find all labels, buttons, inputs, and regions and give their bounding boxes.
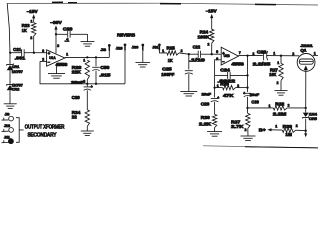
pin 8 of U1A	[57, 44, 59, 48]
svg-text:SECONDARY: SECONDARY	[28, 133, 58, 139]
capacitor C25 100PF	[161, 66, 193, 77]
svg-text:2: 2	[30, 36, 32, 40]
svg-text:C50: C50	[100, 65, 110, 70]
wire R36 to ground	[214, 128, 216, 132]
jack J31	[152, 43, 160, 50]
label OUTPUT XFORMER SECONDARY	[25, 124, 65, 138]
wire R27 to ground	[280, 81, 282, 91]
svg-text:1: 1	[162, 49, 164, 53]
pin 1 of R23	[31, 19, 33, 23]
svg-text:1M: 1M	[285, 132, 292, 137]
node H junction R25 / C25 / C22	[188, 53, 190, 55]
svg-text:2: 2	[296, 124, 298, 128]
wire C24 left	[215, 74, 228, 76]
svg-text:2: 2	[253, 52, 255, 56]
node Q junction CR5 / R30	[305, 130, 307, 132]
svg-text:47K: 47K	[223, 93, 235, 98]
svg-text:10K: 10K	[269, 72, 277, 77]
resistor R27 10K	[269, 56, 283, 81]
svg-text:−: −	[48, 60, 51, 65]
pin 6 of U1B	[216, 57, 218, 61]
wire R30 to node Q	[296, 129, 306, 132]
wire C50 top	[95, 57, 97, 66]
node O junction C30 / R32 / R37	[246, 107, 248, 109]
svg-text:2: 2	[208, 42, 210, 46]
wire node P to CR5	[305, 108, 307, 113]
diode CR1 1N757 zener	[7, 63, 24, 74]
jack J30	[132, 44, 144, 51]
capacitor C24 .0022	[218, 68, 236, 84]
svg-text:2.7K: 2.7K	[231, 124, 245, 129]
wire CR5 to node Q	[305, 119, 307, 131]
wire Q1 drain right	[313, 55, 318, 57]
jack J10	[2, 124, 14, 132]
svg-text:7: 7	[239, 51, 241, 55]
capacitor C21 .001	[13, 47, 26, 61]
svg-text:1K: 1K	[22, 28, 28, 33]
wire minus rail C24 to R29	[214, 75, 216, 97]
ground below CR2	[4, 104, 17, 109]
svg-text:+: +	[243, 91, 245, 95]
node G junction feedback / C50	[95, 83, 97, 85]
node L junction output rail / C24	[246, 74, 248, 76]
resistor R25 1K	[167, 46, 179, 63]
transistor Q1 J231	[297, 43, 315, 72]
svg-text:1: 1	[273, 52, 275, 56]
wire C30 to node O	[247, 97, 249, 114]
node I junction C22 / R24 / U1B	[211, 53, 213, 55]
pin 1 of R32	[269, 104, 271, 108]
pin 2 of R24	[208, 42, 210, 46]
svg-text:U1A: U1A	[49, 56, 56, 60]
diode CR5 1N4	[303, 111, 318, 121]
svg-text:2: 2	[288, 104, 290, 108]
power -15V supply right	[206, 9, 217, 30]
pin 2 of R23	[30, 36, 32, 40]
svg-text:1: 1	[314, 52, 316, 56]
wire U1A output	[65, 56, 110, 58]
resistor R29 47K	[220, 81, 235, 98]
node J junction minus rail / R29	[213, 86, 215, 88]
pin 1 of C23	[273, 52, 275, 56]
wire U1B output	[238, 55, 262, 57]
pin 1 of R30	[275, 124, 277, 128]
wire rail down to CR1	[9, 53, 11, 64]
svg-text:C24: C24	[220, 68, 230, 73]
svg-text:1: 1	[269, 104, 271, 108]
wire input rail from output transformer	[7, 3, 10, 52]
ground below U1A	[48, 63, 65, 78]
svg-text:R36: R36	[201, 115, 211, 120]
capacitor C23 2.2/35	[253, 50, 271, 67]
node F junction feedback / R26	[86, 83, 88, 85]
pin 2 of R26	[83, 80, 85, 84]
ground for R27	[275, 91, 288, 96]
svg-text:−15V: −15V	[27, 9, 38, 14]
resistor R30 1M	[282, 124, 295, 137]
svg-text:−30V: −30V	[50, 20, 62, 25]
svg-text:1: 1	[83, 59, 85, 63]
wire R26 bottom	[86, 80, 88, 84]
ground for C20	[81, 42, 95, 47]
pin 2 of Q1	[292, 52, 294, 56]
label REVERB	[117, 32, 136, 37]
svg-text:.1: .1	[65, 37, 70, 42]
svg-text:R29: R29	[220, 81, 229, 86]
wire J31 to R25	[159, 51, 167, 53]
wire J29 riser to feedback	[124, 50, 126, 83]
resistor R24 100K	[198, 29, 214, 43]
svg-text:C26: C26	[72, 95, 81, 100]
ground for R34	[81, 131, 94, 136]
svg-text:J29: J29	[116, 47, 123, 51]
jack J29	[116, 43, 127, 50]
svg-text:2: 2	[181, 49, 183, 53]
svg-text:REVERB: REVERB	[117, 32, 136, 37]
bracket output transformer secondary	[16, 118, 24, 143]
capacitor C29 20uF	[201, 92, 220, 107]
svg-text:.015: .015	[99, 73, 111, 78]
wire R24 to node I	[211, 43, 213, 54]
diode CR2 1N757 zener	[7, 83, 24, 92]
ground for R37	[241, 136, 256, 141]
wire R23 to input node	[33, 36, 35, 53]
pin 5 of U1B	[216, 50, 218, 54]
svg-text:C22: C22	[193, 44, 201, 49]
wire CR2 to ground	[9, 90, 11, 104]
svg-text:2: 2	[292, 52, 294, 56]
svg-text:Q1: Q1	[300, 47, 307, 52]
wire minus input of U1A	[40, 60, 47, 62]
wire feedback right rail	[247, 56, 249, 92]
pin 1 of R27	[277, 61, 279, 65]
pin 1 of R25	[162, 49, 164, 53]
node N junction output / R27	[280, 55, 282, 57]
node B junction R23 / C21 / op-amp input	[33, 52, 35, 54]
svg-text:20uF: 20uF	[71, 79, 85, 84]
svg-text:J8: J8	[101, 48, 106, 52]
wire stub below node Q	[304, 131, 307, 138]
wire C24 right	[230, 74, 247, 76]
pin 2 of R32	[288, 104, 290, 108]
wire R32 to right rail	[287, 107, 306, 109]
svg-text:J9: J9	[5, 113, 10, 117]
svg-text:R30: R30	[283, 124, 293, 129]
pin 2 of R37	[245, 128, 247, 132]
wire C26 to R34	[86, 90, 88, 110]
wire B+ to R30	[272, 129, 283, 131]
pin 3 of U1A	[42, 49, 44, 53]
op-amp U1B 4558	[221, 47, 244, 66]
node K junction output rail / R29	[246, 86, 248, 88]
pin 2 of R29	[237, 84, 239, 88]
wire node H to C22	[189, 53, 199, 55]
svg-text:22K: 22K	[72, 70, 82, 75]
svg-text:.1/10: .1/10	[189, 58, 205, 63]
svg-text:J30: J30	[132, 46, 139, 50]
wire Q1 source down	[305, 71, 307, 108]
wire node I to U1B + input	[212, 53, 222, 55]
svg-text:CR2: CR2	[12, 87, 20, 92]
node C junction -30V / C20	[55, 33, 57, 35]
svg-text:22: 22	[72, 115, 78, 120]
svg-text:R25: R25	[167, 46, 176, 51]
svg-text:2: 2	[277, 81, 279, 85]
svg-text:1K: 1K	[168, 58, 174, 63]
svg-text:C21: C21	[13, 47, 22, 52]
svg-text:+: +	[91, 85, 93, 89]
pin 2 of C23	[253, 52, 255, 56]
resistor R36 2.2K	[199, 114, 217, 127]
wire feedback drop U1A	[40, 61, 87, 83]
svg-text:1: 1	[277, 61, 279, 65]
svg-text:C30: C30	[251, 99, 259, 104]
wire U1B minus input	[215, 60, 222, 76]
ground for J30	[135, 62, 150, 67]
svg-text:2: 2	[245, 128, 247, 132]
wire node B to op-amp U1A + input	[34, 52, 47, 54]
op-amp U1A 4558	[47, 50, 69, 67]
pin 2 of R30	[296, 124, 298, 128]
capacitor C22 .1/10	[189, 44, 205, 62]
wire riser to J8	[108, 47, 110, 58]
wire C25 drop	[188, 54, 190, 69]
node D junction output / R26	[86, 56, 88, 58]
wire C22 to node I	[201, 53, 212, 55]
wire C23 to Q1 gate	[267, 55, 299, 57]
wire J30 to ground	[142, 51, 144, 63]
capacitor C30 20uF	[243, 91, 260, 104]
wire R34 to ground	[86, 126, 88, 131]
pin 2 of R27	[277, 81, 279, 85]
wire -30V node to C20	[56, 33, 67, 35]
svg-text:100K: 100K	[198, 34, 211, 39]
svg-text:C25: C25	[162, 66, 172, 71]
svg-text:2.2M: 2.2M	[273, 111, 287, 116]
node B+ terminal	[259, 128, 272, 133]
wire R37 to ground	[247, 128, 249, 136]
svg-text:CR5: CR5	[309, 116, 318, 121]
svg-text:1N757: 1N757	[12, 69, 24, 74]
resistor R34 22	[72, 110, 90, 127]
node P junction Q1 rail / R32	[305, 107, 307, 109]
svg-text:C29: C29	[201, 101, 210, 106]
power -15V supply left	[27, 9, 38, 23]
jack J8	[101, 44, 111, 52]
resistor R32 2.2M	[273, 101, 287, 116]
svg-text:J31: J31	[152, 46, 158, 50]
svg-text:20uF: 20uF	[202, 92, 212, 97]
pin 1 of R29	[217, 84, 219, 88]
wire C25 to ground	[188, 74, 190, 91]
node A junction input rail / C21	[9, 52, 11, 54]
pin 1 of R26	[83, 59, 85, 63]
wire R29 left stub	[215, 87, 223, 89]
svg-text:J10: J10	[4, 124, 10, 128]
svg-text:2.2K: 2.2K	[199, 122, 212, 127]
pin 7 of U1B	[239, 51, 241, 55]
pin 2 of R25	[181, 49, 183, 53]
pin 1 of Q1	[314, 52, 316, 56]
svg-text:U1B: U1B	[224, 54, 231, 58]
svg-text:8: 8	[57, 44, 59, 48]
wire C29 to R36	[214, 102, 216, 115]
ground for R36	[207, 132, 222, 137]
svg-text:20uF: 20uF	[250, 92, 260, 97]
pin 2 of U1A	[42, 58, 44, 62]
resistor R23 1K	[22, 23, 36, 36]
svg-text:5: 5	[216, 50, 218, 54]
svg-text:C20: C20	[63, 27, 73, 32]
resistor R26 22K	[72, 60, 90, 79]
wire C50 bottom	[95, 71, 97, 84]
svg-text:4558: 4558	[231, 62, 244, 67]
power -30V supply	[50, 20, 62, 53]
resistor R37 2.7K	[231, 113, 250, 128]
ground for C25	[180, 91, 197, 96]
pin 1 of U1A	[66, 52, 68, 56]
wire R29 right stub	[236, 87, 248, 89]
svg-text:3: 3	[42, 49, 44, 53]
svg-text:.001: .001	[15, 56, 26, 61]
wire rail to C21	[10, 52, 21, 54]
svg-text:100PF: 100PF	[161, 72, 174, 77]
node E junction output / C50	[95, 56, 97, 58]
svg-text:1: 1	[66, 52, 68, 56]
svg-text:2.2/35: 2.2/35	[253, 61, 271, 66]
svg-text:C23: C23	[257, 50, 267, 55]
capacitor C50 .015	[92, 65, 111, 78]
svg-text:1: 1	[31, 19, 33, 23]
svg-text:1: 1	[275, 124, 277, 128]
svg-text:6: 6	[216, 57, 218, 61]
svg-text:R32: R32	[275, 101, 285, 106]
wire node O to R32	[248, 107, 274, 109]
jack J11	[2, 136, 14, 144]
wire feedback bottom run	[87, 83, 125, 85]
wire C21 to node B	[24, 52, 34, 54]
svg-text:4558: 4558	[56, 62, 68, 67]
wire R25 to node H	[179, 53, 189, 54]
svg-text:−15V: −15V	[206, 9, 217, 14]
wire between CR1 and CR2	[9, 70, 11, 84]
capacitor C26 20uF	[71, 79, 92, 100]
node M junction output / feedback rail	[246, 54, 248, 56]
svg-text:OUTPUT XFORMER: OUTPUT XFORMER	[25, 124, 65, 130]
capacitor C20 .1	[63, 27, 73, 43]
svg-text:+: +	[217, 96, 219, 100]
svg-text:B+: B+	[259, 128, 266, 133]
jack J9	[2, 113, 14, 121]
wire C20 to ground	[71, 34, 88, 41]
